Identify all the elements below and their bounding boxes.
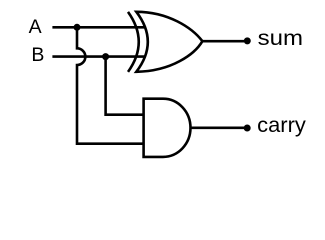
wire from A junction down with hop over B wire to AND lower input — [77, 27, 144, 143]
svg-text:A: A — [29, 16, 42, 38]
wire XOR output to sum — [202, 40, 247, 43]
svg-text:sum: sum — [258, 26, 303, 50]
node sum terminal dot — [244, 37, 251, 44]
node junction dot on B wire — [102, 53, 109, 60]
wire B horizontal — [52, 55, 145, 58]
wire A horizontal — [52, 26, 145, 29]
XOR gate U1 body — [136, 12, 202, 72]
XOR gate U1 back arc — [128, 12, 139, 72]
node junction dot on A wire — [74, 24, 81, 31]
wire AND output to carry — [191, 127, 248, 130]
svg-text:carry: carry — [257, 113, 306, 137]
wire from B junction down to AND upper input — [106, 57, 144, 115]
svg-text:B: B — [31, 44, 44, 66]
node carry terminal dot — [244, 125, 251, 132]
AND gate U2 — [144, 99, 191, 157]
